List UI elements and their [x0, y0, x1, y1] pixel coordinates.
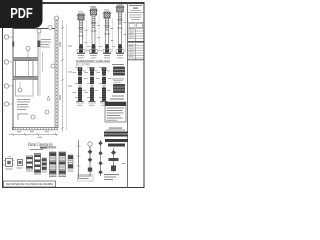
bottom-left detail label: [30, 149, 43, 150]
dark column section V1: [73, 67, 88, 106]
title block table upper: [128, 29, 144, 42]
room rectangle: [16, 61, 34, 77]
dark column section V2: [85, 67, 100, 106]
svg-text:SECCIONES DE COLUMNAS DE AMARR: SECCIONES DE COLUMNAS DE AMARRE: [6, 182, 53, 186]
note text block lower: [17, 99, 30, 110]
column detail U2 (top row): [89, 7, 100, 55]
plan: inner wall: [37, 33, 39, 96]
right stack blob 2: [113, 84, 125, 93]
bottom caption box: [4, 181, 56, 187]
right dimension line 1: [61, 20, 64, 132]
title block header box 1: [128, 5, 144, 13]
dark bar: [104, 132, 128, 137]
grid bubble left 3: [4, 84, 13, 88]
mid ladder 4: [68, 155, 74, 172]
footing detail A: [4, 157, 15, 170]
bottom post with diamonds: [98, 140, 102, 176]
footing dark segments on top columns: [79, 46, 122, 52]
bottom dimension line: [9, 133, 58, 136]
L-shape partition: [18, 114, 28, 120]
micro labels under top columns: [78, 57, 123, 60]
horizontal beam bars: [105, 139, 128, 147]
svg-text:REF. ARMADURA DE MUROS Y COLUM: REF. ARMADURA DE MUROS Y COLUMNAS - DETA…: [76, 60, 110, 63]
bottom labels left: [78, 175, 94, 182]
footing detail B: [17, 160, 23, 169]
caption top row: [76, 60, 110, 67]
title block divider: [127, 3, 129, 188]
second room rectangle: [16, 79, 34, 96]
vertical dim line inner: [42, 52, 44, 72]
grid bubble left 4: [4, 102, 13, 106]
wall band 2: [13, 77, 38, 80]
mid bottom label: [40, 147, 56, 149]
grid bubble left 2: [4, 60, 13, 64]
Planta Cimentacion label: [27, 143, 53, 148]
right stack label 2: [112, 78, 124, 81]
right stack blob 1: [113, 67, 125, 76]
dim number specks: [17, 42, 72, 132]
mid ladder 3: [59, 152, 67, 177]
column detail U3 (top row): [103, 12, 114, 56]
footing detail D: [34, 154, 41, 175]
bottom labels right: [104, 174, 119, 180]
title block table lower: [128, 43, 144, 60]
wall band 1: [13, 58, 38, 61]
footing detail C: [26, 156, 33, 172]
bottom right thin post: [77, 140, 81, 178]
mid ladder 1: [42, 158, 48, 172]
plan: left wall: [12, 28, 14, 130]
plan: top wall: [13, 28, 57, 30]
grid bubble mid: [26, 47, 30, 58]
grid bubble (53,66): [51, 64, 55, 68]
plan: right hatched wall: [55, 18, 58, 128]
bottom post with blobs: [88, 142, 93, 176]
circle (20,90): [18, 82, 22, 92]
drawing frame: [3, 3, 145, 188]
note text block upper: [41, 39, 51, 47]
svg-text:PDF: PDF: [10, 6, 33, 22]
column detail U1 (top row): [77, 14, 88, 56]
grid bubble right wall top: [55, 16, 59, 20]
PDF badge: [0, 0, 43, 28]
grid bubble inner wall top: [37, 29, 41, 33]
bottom anchor detail: [109, 148, 119, 172]
title block table text specks: [129, 29, 134, 57]
circle (47,112): [45, 110, 49, 114]
micro specks near top columns: [78, 6, 116, 51]
plan bottom double line: [12, 127, 58, 129]
right dimension line 2: [66, 24, 68, 130]
page background: [0, 0, 149, 198]
grid bubble top wall: [48, 26, 52, 30]
svg-text:ESC. 1:25 TIPICO: ESC. 1:25 TIPICO: [76, 64, 90, 66]
title block header box 2: [128, 15, 144, 23]
arrow marker: [47, 96, 50, 100]
right stack label 3: [112, 96, 124, 97]
grid bubble left 1: [4, 35, 13, 39]
title block dark band: [128, 41, 144, 43]
wall junction marks: [12, 42, 14, 47]
dark column section V3: [97, 67, 112, 106]
grid bubble (33,117): [31, 115, 35, 119]
column detail U4 (top row): [116, 4, 127, 55]
title block cell row: [129, 24, 143, 28]
notes box: [105, 102, 126, 122]
mid ladder 2: [49, 152, 57, 177]
label above dark bar: [109, 128, 122, 129]
right stack label 1: [112, 64, 124, 65]
